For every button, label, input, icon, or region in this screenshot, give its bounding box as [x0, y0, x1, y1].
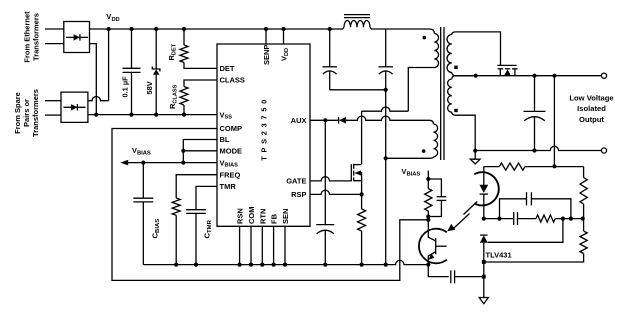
svg-text:BL: BL	[220, 135, 230, 144]
diode bridge D1 (Ethernet pairs)	[64, 22, 90, 53]
capacitor 0.1uF (VDD bypass)	[123, 29, 141, 115]
svg-text:Low Voltage: Low Voltage	[569, 94, 613, 103]
transistor Q1 (primary switch NMOS)	[351, 164, 361, 195]
pin labels: IC top (SENP, VDD)	[262, 45, 290, 65]
capacitor C-out (output, polarized)	[524, 76, 546, 151]
node VBIAS (left) with arrow	[120, 146, 217, 166]
svg-text:SEN: SEN	[281, 209, 290, 224]
label CBIAS	[151, 219, 162, 239]
transformer T1 secondary lower winding	[448, 76, 476, 151]
svg-text:FREQ: FREQ	[220, 170, 241, 179]
svg-text:0.1 µF: 0.1 µF	[120, 76, 129, 98]
wire: SENP pin to VDD rail	[265, 29, 267, 44]
label: Low Voltage Isolated Output	[569, 94, 613, 125]
transistor U2a (optocoupler phototransistor)	[419, 220, 447, 265]
pin labels: IC bottom (RSN COM RTN FB SEN)	[236, 207, 290, 225]
capacitor CAUX (AUX bypass, polarized)	[316, 120, 334, 264]
pin labels: IC right side	[286, 116, 306, 199]
svg-text:TPS23750: TPS23750	[259, 96, 268, 161]
node VBIAS (right) label with stub	[402, 167, 431, 181]
resistor RCLASS (CLASS to VSS)	[180, 80, 217, 115]
svg-text:TLV431: TLV431	[486, 251, 512, 260]
node VDD label	[106, 12, 119, 23]
wire: bridge D1 negative output down to VSS rail	[90, 44, 97, 115]
svg-text:RSN: RSN	[236, 208, 245, 224]
capacitor CBIAS	[133, 163, 153, 265]
svg-text:58V: 58V	[145, 81, 154, 94]
resistor R-sense (source sense)	[358, 194, 366, 264]
label TPS23750	[259, 96, 268, 161]
resistor RFREQ (FREQ to RTN rail)	[172, 175, 217, 265]
resistor R-opto-bias (VBIAS to opto collector)	[425, 179, 432, 219]
label: From Ethernet Transformers	[22, 11, 40, 63]
capacitor CTMR (TMR to RTN rail)	[186, 186, 217, 264]
ground: secondary (below TLV431)	[479, 298, 488, 304]
diode U2b (optocoupler LED)	[474, 167, 499, 219]
resistor RDET (VDD to DET)	[180, 29, 217, 68]
svg-text:From EthernetTransformers: From EthernetTransformers	[22, 11, 40, 63]
resistor R-fb-upper (divider top)	[580, 167, 587, 219]
wire: bridge D2 positive output up to VDD rail (hops over D1 negative)	[88, 29, 109, 101]
wire: VDD rail to transformer primary top	[386, 29, 435, 34]
svg-text:RTN: RTN	[258, 209, 267, 224]
phase dot: primary	[423, 36, 427, 40]
terminal: output positive	[601, 73, 606, 78]
transformer T1 secondary upper winding	[447, 32, 476, 76]
terminal: output negative	[601, 148, 606, 153]
optocoupler light arrow	[447, 202, 477, 232]
svg-text:AUX: AUX	[291, 116, 307, 125]
wire: opto collector node to COMP loop junction	[426, 218, 430, 222]
wire: VDD top rail	[90, 27, 332, 31]
svg-text:COMP: COMP	[220, 124, 243, 133]
shunt regulator U3 TLV431	[480, 235, 488, 297]
inductor L1 (pi filter) with core bars	[331, 15, 386, 29]
capacitor C-in B (right pi filter cap, polarized)	[379, 29, 394, 90]
wire: BL/MODE tie to VBIAS	[181, 140, 217, 165]
wire: output positive rail	[474, 74, 602, 78]
wire: VSS rail (bridge outputs to IC VSS pin)	[88, 113, 217, 117]
diode bridge D2 (spare pairs)	[61, 92, 88, 122]
svg-text:SENP: SENP	[262, 45, 271, 65]
label RCLASS	[168, 84, 179, 109]
svg-text:CLASS: CLASS	[220, 76, 245, 85]
label CTMR	[203, 219, 214, 238]
wire: VDD pin to VDD rail	[283, 29, 285, 44]
transistor Q2 (sync rectifier NMOS, horizontal)	[497, 65, 517, 75]
svg-text:RSP: RSP	[291, 190, 306, 199]
phase dot: secondary lower	[454, 109, 457, 112]
svg-text:Output: Output	[579, 115, 604, 124]
label RDET	[167, 43, 178, 60]
transformer T1 core	[441, 27, 444, 160]
capacitor C-Y (primary RTN to secondary ground)	[428, 265, 484, 283]
wire: ethernet pair inputs to bridge D1	[45, 29, 64, 44]
svg-text:Isolated: Isolated	[577, 104, 606, 113]
value label 0.1 uF	[120, 76, 129, 98]
svg-text:COM: COM	[247, 207, 256, 225]
capacitor C-in A (left pi filter cap, polarized)	[323, 29, 338, 90]
phase dot: aux	[422, 149, 426, 153]
resistor R-fb-lower (divider bottom)	[484, 219, 587, 262]
svg-text:GATE: GATE	[286, 177, 306, 186]
label: From Spare Pairs or Transformers	[13, 89, 40, 137]
diode D3 (AUX rectifier, cathode to AUX pin)	[310, 116, 411, 123]
wire: RSP pin to Q1 source / sense node (hops CAUX line)	[310, 190, 364, 196]
resistor R-LED (LED pull-up to +out)	[499, 163, 583, 170]
phase dot: secondary upper	[454, 66, 457, 69]
svg-text:TMR: TMR	[220, 182, 237, 191]
wire: COMP loop (COMP pin left, down and along bottom to opto collector)	[112, 129, 428, 281]
wire: spare pair inputs to bridge D2	[45, 101, 61, 115]
wire: feedback/compensation line (LED cathode to divider tap)	[482, 217, 514, 221]
ground: secondary (at output negative / transformer return)	[470, 151, 480, 164]
label TLV431	[486, 251, 512, 260]
wire: secondary gate drive (winding top to Q2 gate)	[456, 32, 501, 66]
wire: primary RTN bottom rail	[143, 260, 430, 266]
svg-text:MODE: MODE	[220, 147, 243, 156]
capacitor C-opto (parallel with R-opto-bias)	[428, 179, 446, 217]
capacitor C-comp1 (series, lower branch)	[514, 212, 536, 225]
wire: TLV431 ref to divider tap	[488, 219, 563, 243]
svg-text:FB: FB	[270, 213, 279, 224]
resistor R-comp (series, lower branch)	[536, 215, 585, 222]
wire: output negative rail (hops divider feed)	[473, 146, 601, 152]
transformer T1 aux winding	[386, 120, 438, 158]
pin labels: IC left side	[220, 64, 245, 191]
wire: GATE pin to Q1 gate (hops CAUX line)	[310, 177, 351, 181]
value label 58V	[145, 81, 154, 94]
wire: cap bottoms rail down to VBIAS node	[330, 88, 388, 265]
op-amp/controller IC U1 TPS23750 body	[217, 44, 310, 226]
wire: primary bottom to switch FET drain (hops VBIAS line)	[362, 107, 409, 111]
transformer T1 primary winding	[408, 34, 438, 112]
zener diode 58V (input clamp)	[152, 29, 160, 115]
svg-text:DET: DET	[220, 64, 235, 73]
wire: divider feed from +out down to feedback node	[552, 76, 556, 169]
wire: IC bottom pins RSN COM RTN FB SEN to RTN rail	[240, 226, 285, 264]
capacitor C-comp2 (upper branch)	[500, 192, 571, 218]
